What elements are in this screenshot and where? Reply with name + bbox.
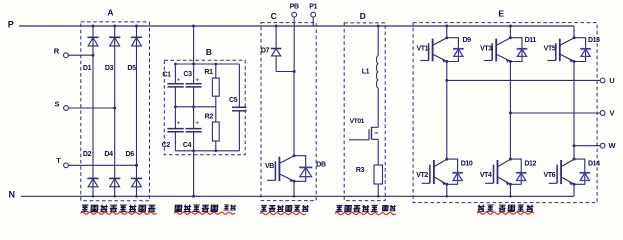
capacitor C2	[167, 107, 183, 151]
wire D7 to PB line	[276, 71, 294, 73]
junction D7-P rail	[275, 25, 278, 28]
svg-text:D: D	[360, 11, 366, 21]
junction in B	[214, 63, 217, 66]
transistor VT1	[420, 38, 447, 63]
junction leg2-P	[113, 25, 116, 28]
wire B mid rail	[175, 106, 216, 108]
svg-text:C1: C1	[162, 71, 171, 78]
svg-text:C: C	[271, 11, 277, 21]
capacitor C5	[232, 64, 247, 151]
junction leg3-P	[135, 25, 138, 28]
junction VT5 collector	[573, 36, 576, 39]
junction in B	[174, 105, 177, 108]
svg-text:V: V	[609, 108, 614, 117]
wire coil to transistor	[377, 88, 379, 127]
terminal S (phase input)	[54, 99, 68, 110]
caption D "开关电源电路" (pseudo glyphs)	[335, 205, 395, 212]
diode D6	[131, 178, 142, 186]
junction VT5 emitter	[573, 60, 576, 63]
resistor R1	[212, 64, 219, 107]
box B (storage/filter)	[164, 60, 245, 155]
junction D7/PB	[293, 70, 296, 73]
transistor VB (brake IGBT)	[267, 156, 294, 183]
junction VB emitter	[293, 180, 296, 183]
diode D4	[109, 178, 120, 186]
underline caption E	[477, 212, 534, 214]
svg-text:VT01: VT01	[350, 118, 365, 125]
diode DB (brake freewheel)	[294, 156, 306, 182]
svg-text:D9: D9	[463, 37, 472, 44]
junction bus-N rail	[192, 195, 195, 198]
junction in B	[192, 105, 195, 108]
underline caption C	[260, 213, 306, 215]
svg-text:D11: D11	[525, 37, 537, 44]
svg-text:C3: C3	[183, 71, 192, 78]
svg-text:DB: DB	[316, 162, 326, 169]
junction U tap	[445, 79, 448, 82]
svg-text:C4: C4	[183, 142, 192, 149]
svg-text:D1: D1	[83, 65, 92, 72]
wire P1 stem	[312, 17, 314, 26]
terminal U	[600, 76, 615, 85]
wire U rail	[447, 79, 600, 81]
wire phase leg 3 mid	[573, 62, 575, 160]
transistor VT4	[485, 159, 510, 185]
wire rectifier leg 3	[136, 26, 138, 196]
svg-text:VB: VB	[265, 163, 274, 170]
svg-text:PB: PB	[290, 4, 299, 11]
junction R3-N	[377, 195, 380, 198]
junction leg1-P	[445, 25, 448, 28]
svg-text:N: N	[9, 190, 16, 200]
wire DC bus through B (lower)	[193, 132, 195, 197]
svg-text:D2: D2	[83, 151, 92, 158]
svg-text:R1: R1	[204, 69, 213, 76]
junction VT6 collector	[573, 158, 576, 161]
svg-text:VT3: VT3	[480, 45, 492, 52]
diode D7	[271, 26, 282, 72]
wire DC bus through B (middle)	[193, 87, 195, 129]
transistor VT3	[484, 38, 511, 63]
underline caption D	[335, 213, 396, 215]
junction VT2 collector	[445, 158, 448, 161]
diode D3	[109, 37, 120, 46]
wire N rail (bottom DC bus)	[21, 195, 574, 197]
caption E "逆变功率电路" (pseudo glyphs)	[477, 205, 533, 212]
junction V tap	[509, 112, 512, 115]
svg-text:D13: D13	[588, 37, 600, 44]
caption B "储能滤波电路" (pseudo glyphs)	[175, 205, 237, 212]
junction D-P rail	[377, 25, 380, 28]
diode D5	[131, 37, 142, 46]
wire B bottom rail	[175, 150, 239, 152]
svg-text:+: +	[196, 78, 199, 84]
wire D branch upper	[377, 26, 379, 56]
junction leg3-N	[135, 195, 138, 198]
junction VT1 emitter	[445, 60, 448, 63]
svg-text:D6: D6	[126, 151, 135, 158]
resistor R3	[374, 165, 383, 196]
svg-text:D12: D12	[524, 161, 536, 168]
svg-text:R3: R3	[356, 167, 365, 174]
wire S to leg2	[68, 107, 114, 109]
junction in B	[174, 63, 177, 66]
box A (three-phase rectifier)	[81, 22, 150, 201]
wire W rail	[574, 145, 600, 147]
svg-text:D3: D3	[105, 65, 114, 72]
transistor VT6	[549, 159, 574, 185]
junction in B	[214, 149, 217, 152]
inductor L1	[377, 56, 379, 89]
svg-text:D7: D7	[261, 47, 270, 54]
resistor R2	[212, 107, 219, 151]
junction leg1-P	[92, 25, 95, 28]
wire emitter to N leg3	[573, 184, 575, 196]
svg-text:VT1: VT1	[416, 45, 428, 52]
capacitor C4	[186, 129, 202, 132]
wire P rail (top DC bus)	[19, 25, 574, 27]
box C (DC braking)	[261, 23, 316, 201]
svg-text:+: +	[196, 121, 199, 127]
svg-text:W: W	[608, 141, 616, 150]
svg-text:R: R	[54, 46, 60, 55]
capacitor C1	[167, 64, 183, 107]
junction leg1-N	[92, 195, 95, 198]
wire B top rail	[175, 63, 239, 65]
svg-text:C2: C2	[162, 142, 171, 149]
terminal T (phase input)	[56, 156, 68, 168]
junction in B	[192, 149, 195, 152]
wire PB stem down to brake leg	[293, 17, 295, 72]
svg-text:C5: C5	[229, 97, 238, 104]
wire phase leg 2 mid	[509, 62, 511, 160]
svg-text:E: E	[498, 9, 504, 19]
wire transistor to R3	[377, 139, 379, 165]
wire DC bus through B (upper)	[193, 26, 195, 84]
junction VT4 emitter	[509, 183, 512, 186]
diode D12	[510, 159, 521, 184]
junction VB-N	[293, 195, 296, 198]
terminal PB	[290, 4, 299, 17]
wire rectifier leg 1	[92, 26, 94, 196]
wire T to leg3	[68, 164, 136, 166]
svg-text:P: P	[8, 20, 14, 30]
junction leg2-N	[509, 195, 512, 198]
junction in B	[192, 63, 195, 66]
svg-text:A: A	[107, 8, 113, 18]
capacitor C3	[186, 84, 202, 87]
svg-text:R2: R2	[205, 114, 214, 121]
diode D14	[574, 159, 585, 184]
svg-text:S: S	[54, 99, 59, 108]
transistor VT2	[422, 159, 447, 185]
underline caption B	[174, 212, 235, 214]
underline caption A	[81, 212, 157, 214]
junction VT3 emitter	[509, 60, 512, 63]
junction S-leg2	[113, 107, 116, 110]
terminal P1	[309, 4, 317, 17]
diode D9	[447, 38, 459, 62]
diode D10	[447, 159, 458, 184]
svg-text:+: +	[177, 78, 180, 84]
wire rectifier leg 2	[114, 26, 116, 196]
junction W tap	[573, 144, 576, 147]
svg-text:VT5: VT5	[544, 45, 556, 52]
wire V rail	[510, 112, 600, 114]
transistor VT01 (SMPS MOSFET)	[349, 127, 378, 140]
junction VT4 collector	[509, 158, 512, 161]
transistor VT5	[548, 38, 575, 63]
svg-text:D5: D5	[127, 65, 136, 72]
box E (inverter)	[413, 23, 597, 203]
wire emitter to N leg1	[446, 184, 448, 196]
terminal V	[600, 108, 614, 117]
svg-text:D10: D10	[461, 161, 473, 168]
wire VB emitter to N	[293, 181, 295, 196]
terminal W	[600, 141, 616, 150]
caption A "三相桥式整流电路" (pseudo glyphs)	[81, 205, 156, 212]
junction VT2 emitter	[445, 183, 448, 186]
wire collector stub leg3	[573, 26, 575, 38]
box D (switching power supply)	[344, 23, 385, 201]
svg-text:T: T	[56, 156, 61, 165]
terminal R (phase input)	[54, 46, 69, 57]
diode D11	[510, 38, 522, 62]
svg-text:B: B	[206, 47, 212, 57]
junction leg2-N	[113, 195, 116, 198]
junction leg1-N	[446, 195, 449, 198]
wire emitter to N leg2	[509, 184, 511, 196]
junction bus-P rail	[192, 25, 195, 28]
diode D13	[574, 38, 586, 62]
svg-text:VT4: VT4	[480, 172, 492, 179]
junction VT1 collector	[445, 36, 448, 39]
svg-text:VT2: VT2	[416, 172, 428, 179]
svg-text:U: U	[609, 76, 614, 85]
junction leg2-P	[509, 25, 512, 28]
wire collector stub leg2	[509, 26, 511, 38]
svg-text:D4: D4	[104, 151, 113, 158]
caption C "直流制动电路" (pseudo glyphs)	[260, 205, 309, 211]
wire R to leg1	[68, 54, 93, 56]
svg-text:P1: P1	[309, 4, 317, 11]
diode D1	[87, 37, 98, 46]
junction VT6 emitter	[573, 183, 576, 186]
junction VT3 collector	[509, 36, 512, 39]
svg-text:VT6: VT6	[543, 172, 555, 179]
wire collector stub leg1	[446, 26, 448, 38]
diode D2	[87, 178, 98, 186]
junction VB collector	[293, 154, 296, 157]
svg-text:D14: D14	[588, 161, 600, 168]
svg-text:+: +	[177, 121, 180, 127]
svg-text:L1: L1	[362, 68, 370, 75]
junction T-leg3	[135, 164, 138, 167]
wire phase leg 1 mid	[446, 62, 448, 160]
junction R-leg1	[92, 54, 95, 57]
